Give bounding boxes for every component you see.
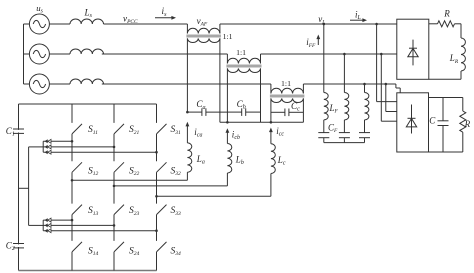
label S23 [129,206,140,217]
svg-text:LF: LF [329,103,339,115]
wire clamp lower arrow [43,223,114,227]
label CF [328,123,338,135]
AC source u3 (phase 3) [24,74,71,94]
wire phase 3 left segment [102,83,271,85]
wire phase 1 right segment (node v_L) [220,23,397,25]
switch S12 [72,162,82,172]
svg-text:S14: S14 [88,246,99,257]
label R load2 [464,119,471,129]
svg-text:S32: S32 [171,167,182,178]
wire S33-S34 [156,215,158,241]
capacitor CF [359,133,370,143]
svg-text:S12: S12 [88,167,99,178]
svg-text:La: La [196,154,205,166]
transformer T2 core [226,65,261,67]
transformer T1 secondary [187,38,219,42]
wire filter leg 3 [364,84,366,93]
svg-text:ica: ica [194,127,202,139]
wire S34-bottom [156,252,158,271]
current arrow i_L [350,9,367,22]
svg-text:C1: C1 [6,126,15,138]
capacitor C1 [13,129,24,133]
wire feeder 3 (phase3 to rect2) [386,84,397,112]
wire converter top rail [19,103,157,105]
svg-text:Ca: Ca [196,99,205,111]
wire load1 bottom [429,78,461,80]
svg-text:C: C [429,116,436,126]
junction bus-Lb [226,121,229,124]
wire secondary bus [220,121,304,123]
wire T1 secondary right leg [219,38,221,122]
wire rail phase a [72,179,187,181]
switch S14 [72,242,82,252]
switch S23 [114,205,124,215]
svg-text:S11: S11 [88,125,98,136]
wire clamp upper arrow [43,139,72,143]
wire load2 bottom [429,151,463,153]
wire phase 3 step into rectifier 2 [396,84,400,93]
junction bus-Lc [270,121,273,124]
svg-text:S13: S13 [88,206,99,217]
wire filter leg 2 [343,54,345,93]
AC source u1 (phase 1) [24,14,71,34]
svg-text:S34: S34 [171,246,182,257]
label LR [449,53,459,65]
junction clamp upper col2 [113,146,116,149]
wire filter leg 1 [323,24,325,93]
wire column 1 upper [71,104,73,123]
label S13 [88,206,99,217]
current arrow i_cc [269,126,284,138]
label S11 [88,125,98,136]
inductor LF coil [344,93,348,133]
label S22 [129,167,140,178]
svg-text:iL: iL [355,9,362,21]
label 1:1 T1 [223,32,233,41]
junction clamp lower col3 [155,229,158,232]
inductor LR [461,24,465,80]
svg-text:1:1: 1:1 [223,32,233,41]
wire T3 secondary right leg [302,98,304,122]
wire T2 secondary left leg [226,68,228,122]
wire column 3 upper [156,104,158,123]
svg-text:iFF: iFF [306,37,316,49]
svg-text:vAF: vAF [197,16,208,28]
label Cb [237,99,246,111]
svg-text:CF: CF [328,123,338,135]
switch S31 [157,124,167,134]
junction Ca-La [186,111,189,114]
svg-text:icb: icb [232,129,240,141]
transformer T2 secondary [227,68,260,72]
capacitor C2 [13,244,24,248]
wire converter bottom rail [19,270,157,272]
junction rail-a col1 [71,179,74,182]
label C1 [6,126,15,138]
switch S34 [157,242,167,252]
svg-text:vPCC: vPCC [123,14,138,26]
rectifier bridge 2 box [397,93,429,152]
switch S32 [157,162,167,172]
wire clamp upper middle stub [29,146,44,148]
wire T2 secondary right leg [260,68,262,122]
label Ls [84,8,93,20]
label S31 [171,125,182,136]
svg-text:S33: S33 [171,206,182,217]
switch S13 [72,205,82,215]
wire phase 3 right segment [303,83,396,85]
junction rail-b col2 [113,185,116,188]
switch S24 [114,242,124,252]
wire phase 2 left segment [102,53,228,55]
wire S13-S14 [71,215,73,241]
label C2 [6,241,15,253]
wire clamp tie to midpoint [19,187,29,189]
junction clamp lower col1 [71,219,74,222]
junction leg3-phase3 [363,83,366,86]
resistor R (load1) [429,21,461,27]
wire S22-S23 [113,172,115,203]
svg-text:is: is [162,6,168,18]
junction feeder1-phase1 [375,23,378,26]
capacitor Cc [271,109,304,117]
switch S22 [114,162,124,172]
svg-text:R: R [464,119,471,129]
label LF [329,103,339,115]
rectifier bridge 1 box [397,19,429,79]
label v_PCC [123,14,138,26]
label 1:1 T3 [281,79,291,88]
wire rail phase c [157,195,271,197]
label Ca [196,99,205,111]
svg-text:us: us [36,3,43,15]
label Cc [291,101,300,113]
capacitor CF [318,133,329,143]
inductor Lb [227,137,231,186]
AC source u2 (phase 2) [24,44,71,64]
svg-text:Ls: Ls [84,8,93,20]
svg-text:icc: icc [276,126,284,138]
wire S12-S13 [71,172,73,203]
label S33 [171,206,182,217]
label S21 [129,125,140,136]
svg-text:1:1: 1:1 [236,48,246,57]
inductor LF coil [365,93,369,133]
svg-text:S23: S23 [129,206,140,217]
wire rail phase b [114,185,227,187]
svg-text:1:1: 1:1 [281,79,291,88]
label v_AF [197,16,208,28]
inductor Lc [271,136,275,196]
svg-text:Cb: Cb [237,99,246,111]
resistor R (load2) [460,98,466,153]
wire T1 secondary left leg [186,38,188,112]
junction leg2-phase2 [343,53,346,56]
svg-text:R: R [443,8,450,18]
wire S24-bottom [113,252,115,271]
wire clamp lower arrow [43,218,72,222]
junction clamp lower col2 [113,224,116,227]
label 1:1 T2 [236,48,246,57]
wire phase 1 left segment (node v_PCC) [104,23,188,25]
svg-text:Lb: Lb [235,155,244,167]
wire column 2 upper [113,104,115,123]
wire S14-bottom [71,252,73,271]
transformer T1 primary [187,24,220,34]
current arrow i_cb [226,128,240,141]
inductor La [187,130,191,180]
wire phase 2 right segment [261,53,397,55]
label Lc [277,155,286,167]
wire clamp upper arrow [43,150,156,154]
wire CF common bus [324,142,365,144]
junction clamp upper col3 [155,151,158,154]
wire S11-S12 [71,134,73,161]
diode D1 [408,40,418,66]
inductor Ls (phase 2) [70,49,103,54]
capacitor Ca [187,108,227,116]
wire clamp bus vertical [28,147,30,226]
transformer T2 primary [227,54,260,64]
label S12 [88,167,99,178]
label S34 [171,246,182,257]
svg-text:S21: S21 [129,125,140,136]
transformer T3 secondary [271,98,304,102]
svg-text:vL: vL [318,14,325,26]
wire - source neutral bus [23,24,25,84]
wire clamp lower middle stub [29,224,44,226]
wire S21-S22 [113,134,115,161]
label C load2 [429,116,436,126]
clamp bracket lower [42,220,44,231]
label S32 [171,167,182,178]
label R load1 [443,8,450,18]
wire clamp upper arrow [43,145,114,149]
wire feeder 1 (phase1 to rect2) [377,24,397,102]
wire feeder 2 (phase2 to rect2) [381,54,397,121]
svg-text:S24: S24 [129,246,140,257]
junction feeder3-phase3 [385,83,388,86]
transformer T3 core [270,95,305,97]
label u_s [36,3,43,15]
capacitor C (load2) [438,98,449,153]
transformer T1 core [186,35,221,37]
transformer T3 primary [271,84,304,94]
current arrow i_FF [306,35,320,49]
switch S11 [72,124,82,134]
current arrow i_ca [186,122,203,139]
inductor LF coil [324,93,328,133]
junction rail-c col3 [155,195,158,198]
switch S21 [114,124,124,134]
svg-text:Lc: Lc [277,155,286,167]
wire S23-S24 [113,215,115,241]
clamp bracket upper [42,141,44,152]
node v_L [318,14,325,26]
label S24 [129,246,140,257]
label S14 [88,246,99,257]
label Lb [235,155,244,167]
junction feeder2-phase2 [380,53,383,56]
current arrow i_s [155,6,176,19]
diode D2 [406,105,416,134]
wire clamp lower arrow [43,229,156,233]
svg-text:S22: S22 [129,167,140,178]
wire S31-S32 [156,134,158,161]
wire load2 top [429,97,463,99]
wire converter left bus [18,104,20,271]
inductor Ls (phase 1) [70,19,103,24]
junction clamp upper col1 [71,140,74,143]
inductor Ls (phase 3) [70,79,103,84]
capacitor CF [339,133,350,143]
svg-text:C2: C2 [6,241,15,253]
wire S32-S33 [156,172,158,203]
label La [196,154,205,166]
switch S33 [157,205,167,215]
capacitor Cb [227,108,260,116]
wire T3 secondary left leg [270,98,272,122]
svg-text:S31: S31 [171,125,182,136]
svg-text:LR: LR [449,53,459,65]
